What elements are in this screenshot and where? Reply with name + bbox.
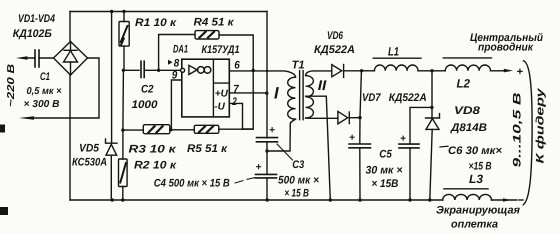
resistor R2 bbox=[119, 159, 128, 187]
arrow AC input bottom bbox=[19, 116, 34, 120]
resistor R1 bbox=[119, 22, 129, 47]
arrow shield bbox=[503, 198, 511, 202]
transformer T1 core bbox=[300, 71, 304, 120]
resistor R4 bbox=[195, 31, 219, 39]
svg-text:500 мк ×: 500 мк × bbox=[278, 175, 320, 187]
svg-text:С1: С1 bbox=[40, 71, 50, 83]
svg-text:× 15 В: × 15 В bbox=[284, 188, 309, 200]
dash before bracket bbox=[519, 199, 523, 201]
wire pin6 output bbox=[229, 71, 295, 77]
wire feedback up to R4 bbox=[159, 35, 195, 71]
svg-text:L1: L1 bbox=[388, 44, 399, 58]
svg-text:30 мк ×: 30 мк × bbox=[366, 164, 404, 176]
wire R1 branch bbox=[123, 12, 125, 71]
svg-text:L2: L2 bbox=[457, 77, 471, 91]
svg-text:VD5: VD5 bbox=[79, 143, 100, 155]
svg-text:Т1: Т1 bbox=[292, 59, 305, 71]
wire node X to C2 bbox=[123, 69, 139, 71]
node dot pin9 junction bbox=[169, 128, 172, 131]
wire bridge bottom drop bbox=[69, 75, 71, 200]
svg-text:R3 10 к: R3 10 к bbox=[129, 143, 178, 155]
node dot VD7 cathode bbox=[358, 116, 361, 119]
svg-text:R5 51 к: R5 51 к bbox=[187, 143, 229, 155]
node dots bottom rail bbox=[111, 198, 114, 201]
wire R2 bottom lead bbox=[122, 187, 124, 201]
wire C2 to pin8 bbox=[144, 69, 180, 71]
wire C4 to ground bbox=[266, 178, 268, 200]
resistor R3 bbox=[143, 125, 170, 134]
node dot rectifier output bbox=[360, 69, 363, 72]
svg-text:+: + bbox=[400, 134, 406, 145]
svg-text:К фидеру: К фидеру bbox=[535, 87, 547, 163]
capacitor C5 bbox=[349, 144, 371, 148]
svg-text:0,5 мк ×: 0,5 мк × bbox=[27, 86, 62, 97]
svg-text:VD6: VD6 bbox=[327, 30, 344, 42]
wire pin7 bbox=[229, 92, 266, 94]
svg-text:9: 9 bbox=[172, 70, 178, 82]
svg-text:I: I bbox=[274, 84, 279, 102]
pin 8 arrow bbox=[168, 60, 173, 65]
leader C6 bbox=[440, 145, 448, 148]
svg-text:R4 51 к: R4 51 к bbox=[194, 16, 236, 28]
wire R4 right to output bbox=[219, 35, 253, 71]
transformer T1 primary winding bbox=[288, 77, 296, 119]
wire plus rail drop bbox=[266, 12, 268, 139]
wire AC input top bbox=[28, 57, 54, 59]
svg-text:2: 2 bbox=[232, 96, 237, 108]
svg-text:К157УД1: К157УД1 bbox=[202, 44, 240, 56]
svg-text:С4 500 мк × 15 В: С4 500 мк × 15 В bbox=[154, 177, 230, 189]
svg-text:II: II bbox=[318, 77, 328, 93]
wire R2 top lead bbox=[122, 130, 124, 159]
node dot X bbox=[122, 69, 125, 72]
wire rectifier node down bbox=[360, 71, 362, 144]
node dot L1 L2 junction bbox=[430, 69, 433, 72]
zener VD8 bbox=[426, 107, 440, 200]
svg-text:7: 7 bbox=[233, 84, 239, 96]
wire C5 to ground bbox=[359, 148, 361, 200]
wire VD5 branch bbox=[110, 12, 112, 201]
leader C3 bbox=[277, 144, 293, 160]
wire primary return bbox=[267, 119, 296, 151]
op-amp DA1 box bbox=[182, 59, 230, 117]
svg-text:× 300 В: × 300 В bbox=[24, 99, 60, 110]
svg-text:+: + bbox=[269, 125, 275, 136]
node dot top rail R1 bbox=[122, 10, 125, 13]
node dot R3 junction bbox=[121, 128, 124, 131]
node dot output feedback bbox=[252, 69, 255, 72]
wire line B down bbox=[122, 70, 125, 130]
arrow output plus bbox=[504, 69, 513, 73]
svg-text:VD7: VD7 bbox=[362, 92, 381, 104]
svg-text:КД522А: КД522А bbox=[389, 92, 427, 104]
svg-text:×15 В: ×15 В bbox=[469, 160, 492, 172]
wire center tap bbox=[306, 96, 331, 200]
svg-text:С3: С3 bbox=[292, 159, 304, 171]
svg-text:Д814В: Д814В bbox=[450, 122, 487, 134]
wire VD8 branch bbox=[431, 71, 433, 108]
svg-text:R2 10 к: R2 10 к bbox=[134, 159, 178, 171]
svg-text:L3: L3 bbox=[469, 172, 483, 186]
capacitor C4 bbox=[256, 174, 277, 178]
edge smudge left bbox=[0, 125, 5, 133]
wire bridge top drop bbox=[69, 12, 71, 42]
wire output down to R5 bbox=[243, 71, 254, 130]
wire C6 branch bbox=[410, 107, 432, 143]
leader C4 bbox=[235, 178, 255, 183]
svg-text:С2: С2 bbox=[141, 84, 154, 96]
arrow AC input top bbox=[16, 56, 28, 59]
capacitor C6 bbox=[399, 144, 419, 148]
zener VD5 bbox=[106, 139, 118, 155]
wire pin9 bbox=[171, 80, 181, 130]
svg-text:+: + bbox=[256, 162, 262, 173]
wire C3 to C4 bbox=[266, 142, 268, 175]
capacitor C1 bbox=[35, 50, 39, 67]
svg-text:-U: -U bbox=[214, 102, 225, 113]
svg-text:+U: +U bbox=[215, 89, 229, 100]
wire R3 lead left bbox=[123, 129, 143, 131]
svg-text:~220 В: ~220 В bbox=[6, 64, 17, 107]
capacitor C2 bbox=[141, 61, 144, 77]
svg-text:9...10,5 В: 9...10,5 В bbox=[512, 92, 524, 167]
node blob crossing bbox=[266, 70, 269, 73]
wire pin2 bbox=[229, 103, 242, 129]
svg-text:DA1: DA1 bbox=[173, 44, 188, 56]
node dot primary return bbox=[265, 149, 268, 152]
svg-text:VD1-VD4: VD1-VD4 bbox=[18, 13, 55, 25]
svg-text:VD8: VD8 bbox=[454, 105, 481, 117]
bracket к фидеру bbox=[523, 61, 532, 205]
wire secondary bottom to VD7 bbox=[306, 117, 338, 119]
node dot pin7 bbox=[265, 92, 268, 95]
wire top rail bbox=[70, 11, 267, 13]
wire bottom rail bbox=[70, 199, 443, 201]
node dot feedback bbox=[157, 69, 160, 72]
resistor R5 bbox=[194, 125, 219, 133]
svg-text:С5: С5 bbox=[379, 149, 392, 161]
diode VD6 bbox=[332, 65, 362, 78]
svg-text:КД102Б: КД102Б bbox=[13, 28, 52, 40]
pin 8 circle bbox=[181, 68, 185, 72]
svg-text:R1 10 к: R1 10 к bbox=[135, 17, 178, 29]
wire R5 leads bbox=[171, 128, 253, 131]
wire secondary top to VD6 bbox=[306, 71, 332, 76]
svg-text:+: + bbox=[517, 66, 524, 78]
wire C6 to ground bbox=[409, 148, 411, 200]
svg-text:+: + bbox=[349, 133, 355, 144]
svg-text:КД522А: КД522А bbox=[314, 44, 355, 56]
diode VD7 bbox=[338, 111, 360, 124]
wire AC input bottom bbox=[33, 58, 99, 118]
svg-text:проводник: проводник bbox=[478, 41, 534, 53]
svg-text:6: 6 bbox=[234, 59, 240, 71]
node dot top rail VD5 bbox=[110, 10, 113, 13]
bridge rectifier VD1-VD4 bbox=[54, 42, 88, 76]
svg-text:оплетка: оплетка bbox=[451, 219, 498, 231]
svg-text:1000: 1000 bbox=[132, 99, 159, 111]
svg-text:КС530А: КС530А bbox=[72, 157, 107, 169]
svg-text:8: 8 bbox=[174, 58, 180, 70]
label infinity bbox=[198, 67, 205, 74]
inductor L2 bbox=[432, 58, 504, 71]
svg-text:Экранирующая: Экранирующая bbox=[436, 205, 521, 217]
inductor L1 bbox=[362, 58, 432, 71]
svg-text:× 15В: × 15В bbox=[371, 178, 398, 190]
transformer T1 secondary winding bbox=[306, 76, 314, 118]
capacitor C3 bbox=[257, 138, 278, 142]
node dot C6 VD8 bbox=[430, 106, 433, 109]
svg-text:С6 30 мк×: С6 30 мк× bbox=[448, 145, 503, 157]
inductor L3 bbox=[443, 189, 517, 200]
